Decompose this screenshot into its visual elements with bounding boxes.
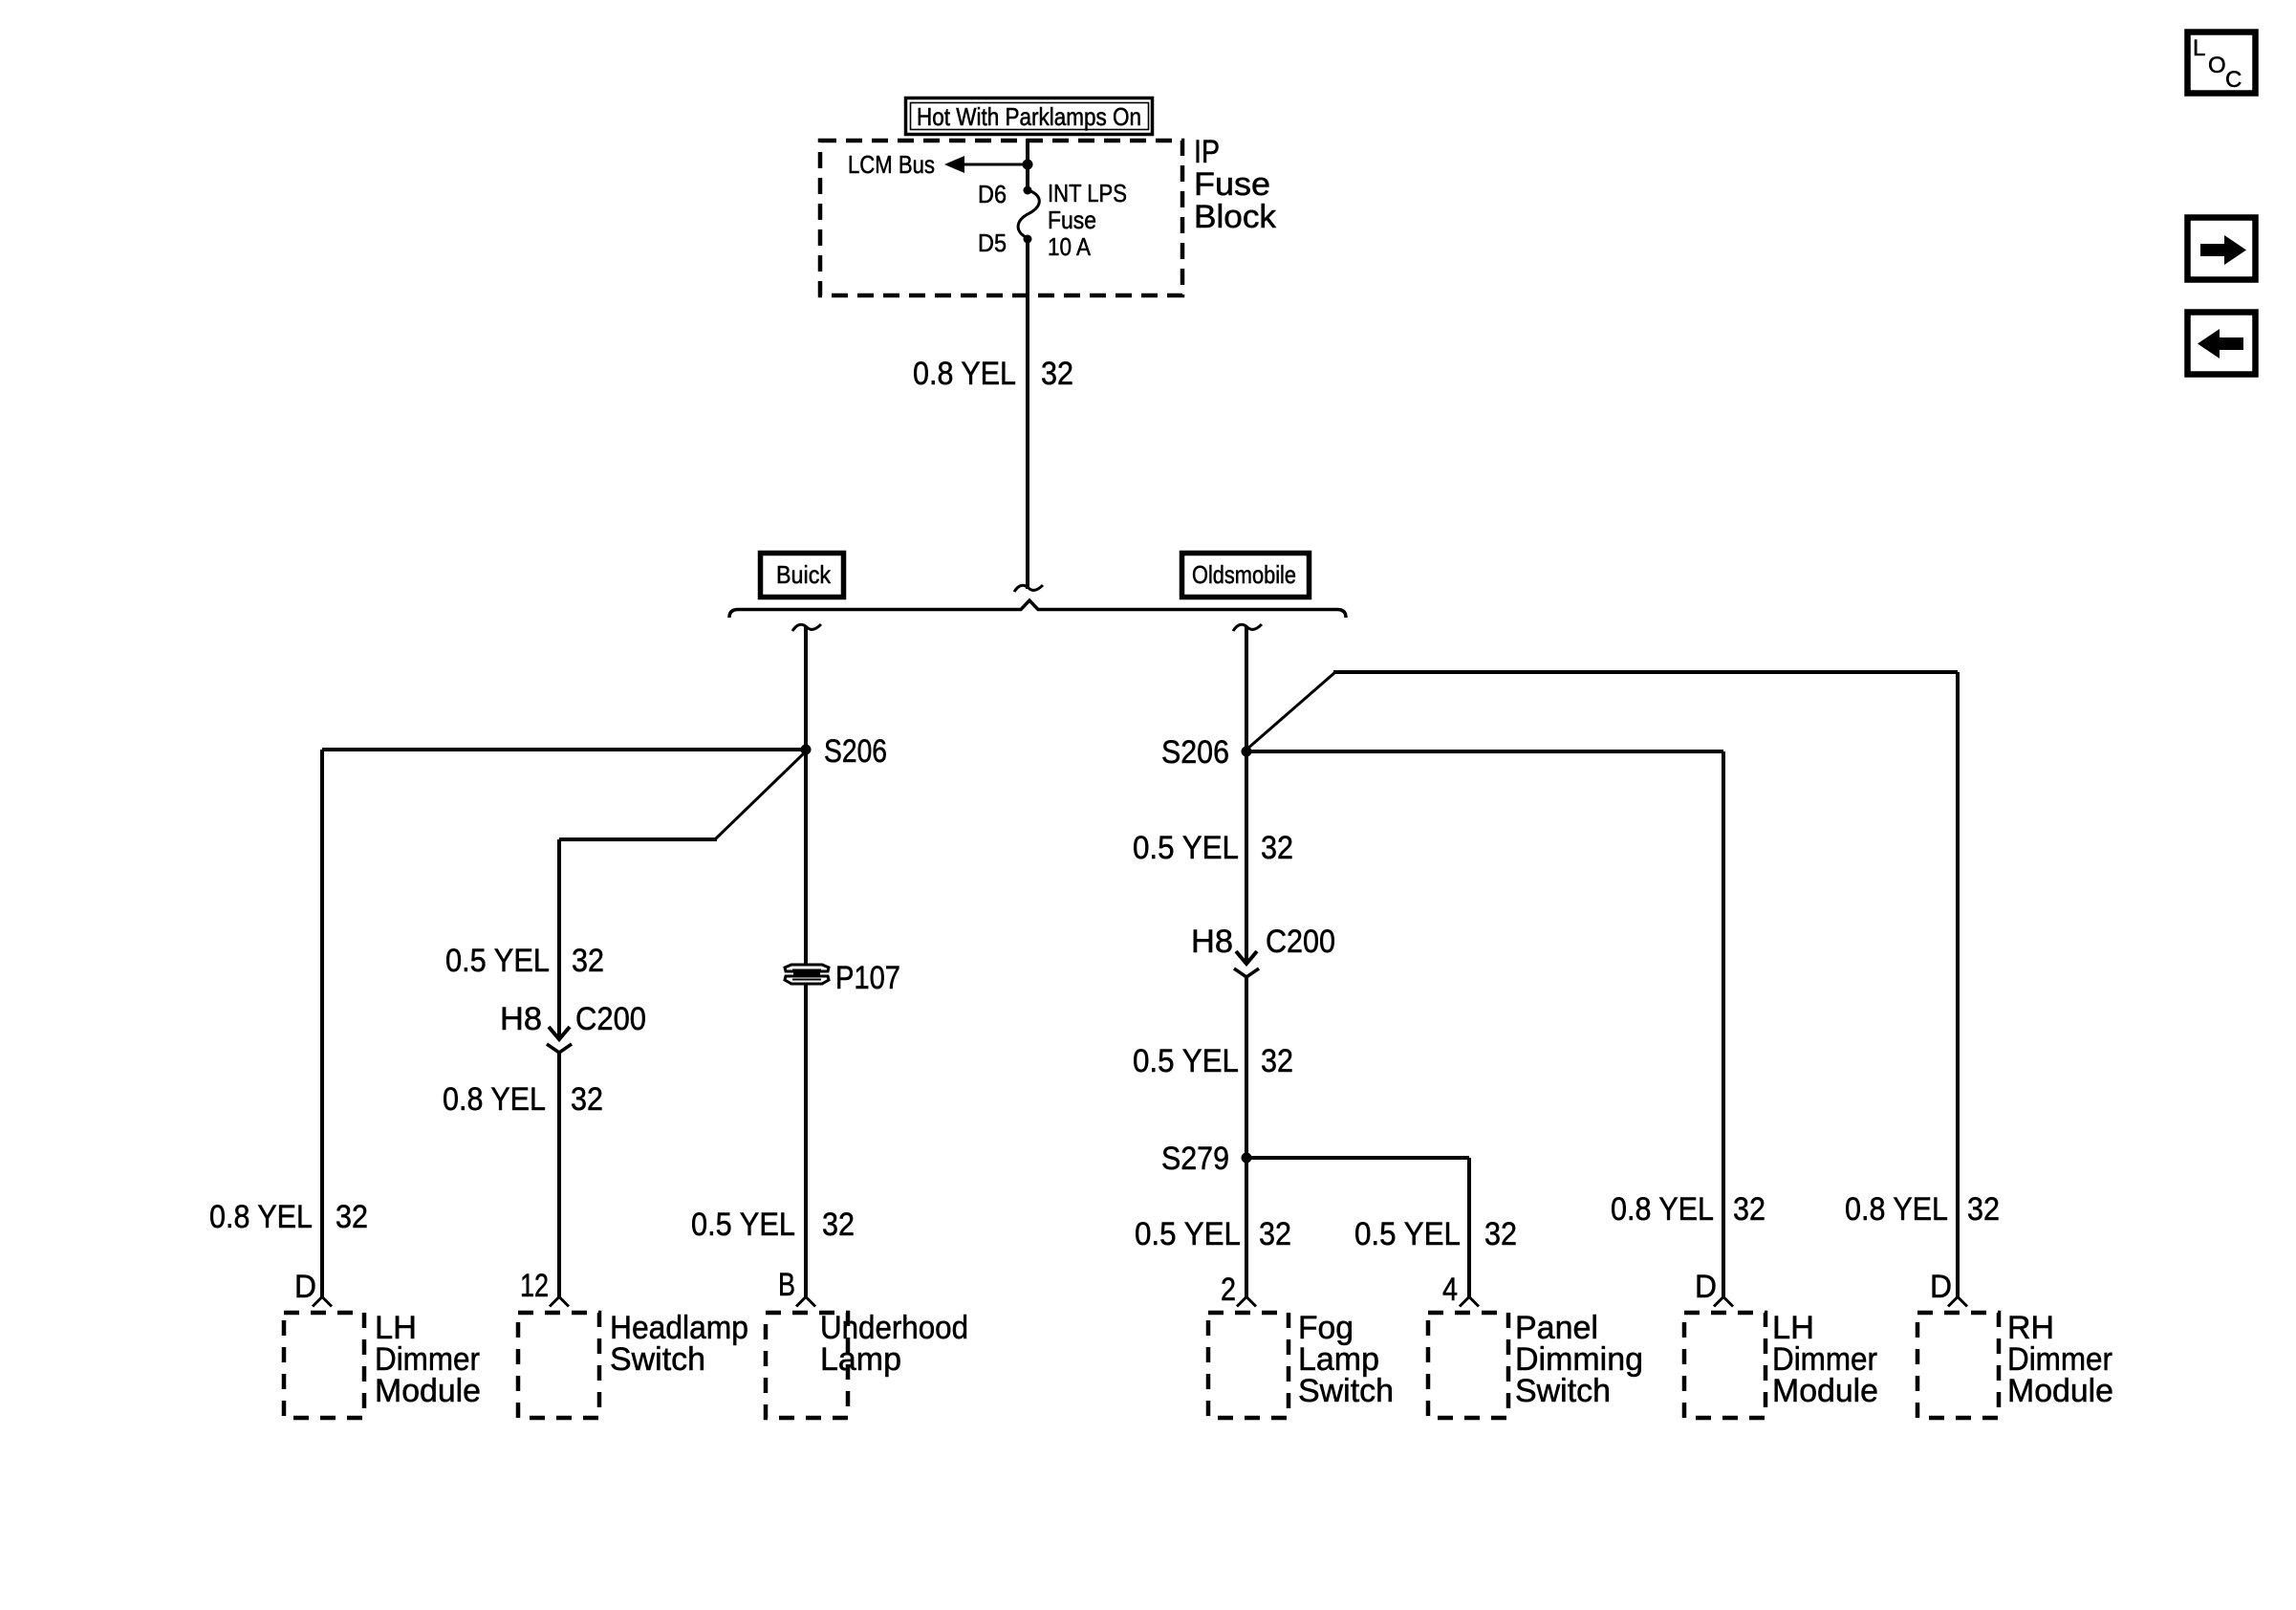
svg-text:C200: C200 (1266, 924, 1335, 960)
svg-text:Buick: Buick (776, 560, 832, 589)
wire: S206 diagonal to headlamp switch feed (715, 751, 806, 839)
terminal D (RH dimmer module) (1948, 1297, 1967, 1307)
svg-text:0.8 YEL: 0.8 YEL (443, 1081, 546, 1118)
fuse INT LPS 10A (1018, 186, 1039, 244)
Hot With Parklamps On label box (906, 98, 1153, 135)
connector C200 pin H8 (Olds side) (1234, 951, 1259, 977)
terminal B (underhood lamp) (796, 1297, 815, 1307)
svg-text:C200: C200 (575, 1001, 646, 1037)
wire: fuse output down (1026, 239, 1029, 589)
svg-text:32: 32 (336, 1199, 368, 1235)
svg-text:D5: D5 (978, 228, 1007, 257)
component label: RH Dimmer Module (2007, 1310, 2113, 1409)
wire: feed into fuse block (1026, 139, 1029, 164)
svg-text:Switch: Switch (610, 1341, 705, 1378)
svg-text:0.5 YEL: 0.5 YEL (1133, 830, 1239, 866)
wire: panel dimming switch feed vertical (1467, 1158, 1471, 1298)
wire: LH dimmer feed vertical (1722, 751, 1725, 1298)
svg-text:D: D (294, 1269, 316, 1305)
fuse value label: INT LPS Fuse 10 A (1048, 179, 1127, 261)
brace: split to Buick / Oldsmobile (729, 600, 1346, 618)
svg-text:0.5 YEL: 0.5 YEL (1354, 1216, 1461, 1252)
svg-text:Module: Module (1772, 1373, 1878, 1409)
component box: fog lamp switch (1208, 1313, 1289, 1418)
wire: Buick branch vertical upper (804, 626, 808, 964)
svg-text:D6: D6 (978, 180, 1007, 208)
terminal D (LH dimmer module) (1714, 1297, 1733, 1307)
svg-text:0.5 YEL: 0.5 YEL (445, 943, 550, 979)
svg-text:0.8 YEL: 0.8 YEL (913, 356, 1016, 392)
svg-text:O: O (2208, 53, 2226, 78)
svg-text:32: 32 (571, 1081, 603, 1118)
svg-text:Fuse: Fuse (1048, 206, 1096, 234)
svg-text:D: D (1930, 1269, 1952, 1305)
wire label: 0.5 YEL 32 (olds upper) (1133, 830, 1293, 866)
wire: LCM Bus arrow (944, 156, 1028, 173)
component box: RH dimmer module (1917, 1313, 1999, 1418)
svg-text:10 A: 10 A (1048, 232, 1092, 261)
svg-text:Fuse: Fuse (1194, 166, 1270, 203)
svg-text:0.5 YEL: 0.5 YEL (691, 1207, 795, 1243)
wire: RH dimmer feed horizontal (1333, 670, 1958, 674)
wire: olds vertical below C200 (1245, 977, 1248, 1298)
wire label: 0.8 YEL 32 (LH dimmer feed) (1611, 1191, 1765, 1228)
Oldsmobile tag box (1182, 554, 1310, 598)
svg-text:32: 32 (572, 943, 604, 979)
svg-text:0.5 YEL: 0.5 YEL (1133, 1043, 1239, 1079)
svg-text:Hot With Parklamps On: Hot With Parklamps On (917, 102, 1141, 131)
wire: S206 to left dimmer feed (322, 748, 806, 751)
component label: Fog Lamp Switch (1298, 1310, 1394, 1409)
svg-text:H8: H8 (1191, 924, 1233, 960)
svg-text:Module: Module (2007, 1373, 2113, 1409)
wire label: 0.5 YEL 32 (headlamp feed) (445, 943, 604, 979)
component label: Panel Dimming Switch (1515, 1310, 1643, 1409)
wire: Oldsmobile branch vertical upper (1245, 626, 1248, 964)
svg-text:Switch: Switch (1515, 1373, 1611, 1409)
svg-text:0.5 YEL: 0.5 YEL (1135, 1216, 1241, 1252)
wire: underhood lamp feed lower (804, 985, 808, 1298)
LOC page icon (2188, 33, 2256, 94)
wire label: 0.8 YEL 32 (left dimmer feed) (209, 1199, 368, 1235)
svg-text:32: 32 (1259, 1216, 1291, 1252)
svg-text:32: 32 (1484, 1216, 1517, 1252)
svg-text:LCM Bus: LCM Bus (848, 150, 935, 179)
wire break symbol (main feed) (1014, 585, 1043, 592)
node: LCM Bus tap (1023, 160, 1033, 170)
svg-text:2: 2 (1221, 1272, 1236, 1308)
svg-text:D: D (1695, 1269, 1717, 1305)
component label: LH Dimmer Module (Buick) (375, 1310, 481, 1409)
wire label: 0.5 YEL 32 (underhood feed) (691, 1207, 855, 1243)
splice S206 (Oldsmobile) (1242, 747, 1252, 757)
svg-text:S279: S279 (1161, 1141, 1229, 1177)
svg-text:4: 4 (1442, 1272, 1458, 1308)
wire: left dimmer feed vertical (320, 750, 324, 1298)
forward page arrow icon (2188, 218, 2256, 280)
wire: LH dimmer feed horizontal (1246, 750, 1723, 753)
backward page arrow icon (2188, 313, 2256, 375)
component box: underhood lamp (766, 1313, 848, 1418)
terminal 4 (panel dimming switch) (1460, 1297, 1479, 1307)
component label: Headlamp Switch (610, 1310, 748, 1378)
splice S206 (Buick) (801, 745, 812, 755)
IP fuse block label (1194, 134, 1277, 235)
svg-text:C: C (2225, 67, 2242, 93)
component label: LH Dimmer Module (1772, 1310, 1878, 1409)
svg-text:Block: Block (1194, 199, 1277, 235)
svg-text:H8: H8 (500, 1001, 542, 1037)
wire: headlamp switch feed vertical upper (557, 839, 561, 1039)
svg-text:32: 32 (1041, 356, 1073, 392)
wire: LCM node to fuse (1026, 164, 1029, 190)
svg-text:32: 32 (1967, 1191, 2000, 1228)
component box: LH dimmer module (Buick) (284, 1313, 364, 1418)
svg-text:0.8 YEL: 0.8 YEL (209, 1199, 313, 1235)
svg-text:Oldsmobile: Oldsmobile (1192, 560, 1296, 589)
wire: horizontal to headlamp switch feed (559, 838, 717, 841)
wire: headlamp switch feed vertical lower (557, 1053, 561, 1298)
svg-text:32: 32 (1733, 1191, 1765, 1228)
svg-text:Switch: Switch (1298, 1373, 1394, 1409)
svg-text:0.8 YEL: 0.8 YEL (1845, 1191, 1948, 1228)
svg-text:Module: Module (375, 1373, 481, 1409)
component box: LH dimmer module (1684, 1313, 1765, 1418)
splice S279 (1242, 1153, 1252, 1164)
svg-text:B: B (778, 1267, 795, 1303)
svg-text:S206: S206 (1161, 734, 1229, 771)
svg-text:32: 32 (1261, 830, 1293, 866)
Buick tag box (761, 554, 844, 598)
wire label: 0.8 YEL 32 (headlamp feed) (443, 1081, 603, 1118)
wire break symbol (Oldsmobile branch top) (1233, 624, 1262, 631)
svg-text:32: 32 (822, 1207, 855, 1243)
wire break symbol (Buick branch top) (792, 624, 821, 631)
terminal D (LH dimmer module, Buick) (313, 1297, 332, 1307)
wire: RH dimmer feed vertical (1956, 672, 1960, 1298)
svg-text:12: 12 (520, 1268, 549, 1304)
svg-text:0.8 YEL: 0.8 YEL (1611, 1191, 1714, 1228)
svg-text:P107: P107 (835, 960, 900, 996)
component box: panel dimming switch (1428, 1313, 1508, 1418)
component label: Underhood Lamp (820, 1310, 968, 1378)
terminal 2 (fog lamp switch) (1237, 1297, 1256, 1307)
wire label: 0.5 YEL 32 (fog lamp feed) (1135, 1216, 1291, 1252)
svg-text:S206: S206 (824, 733, 887, 770)
wire label: 0.8 YEL 32 (913, 356, 1073, 392)
wire label: 0.5 YEL 32 (panel dimming feed) (1354, 1216, 1517, 1252)
label H8 C200 (Buick side) (500, 1001, 646, 1037)
svg-text:Lamp: Lamp (820, 1341, 901, 1378)
label H8 C200 (Olds side) (1191, 924, 1335, 960)
terminal 12 (headlamp switch) (550, 1297, 569, 1307)
svg-text:32: 32 (1261, 1043, 1293, 1079)
connector C200 pin H8 (Buick side) (547, 1027, 572, 1053)
svg-text:IP: IP (1194, 134, 1220, 170)
grommet P107 (785, 965, 829, 984)
wire: S279 branch horizontal (1246, 1156, 1469, 1160)
svg-text:INT LPS: INT LPS (1048, 179, 1127, 207)
component box: headlamp switch (518, 1313, 599, 1418)
wire label: 0.5 YEL 32 (olds middle) (1133, 1043, 1293, 1079)
svg-text:L: L (2193, 35, 2205, 61)
wire: S206 diagonal to RH dimmer feed (1246, 672, 1335, 750)
wire label: 0.8 YEL 32 (RH dimmer feed) (1845, 1191, 2000, 1228)
IP fuse block dashed box (820, 141, 1182, 295)
